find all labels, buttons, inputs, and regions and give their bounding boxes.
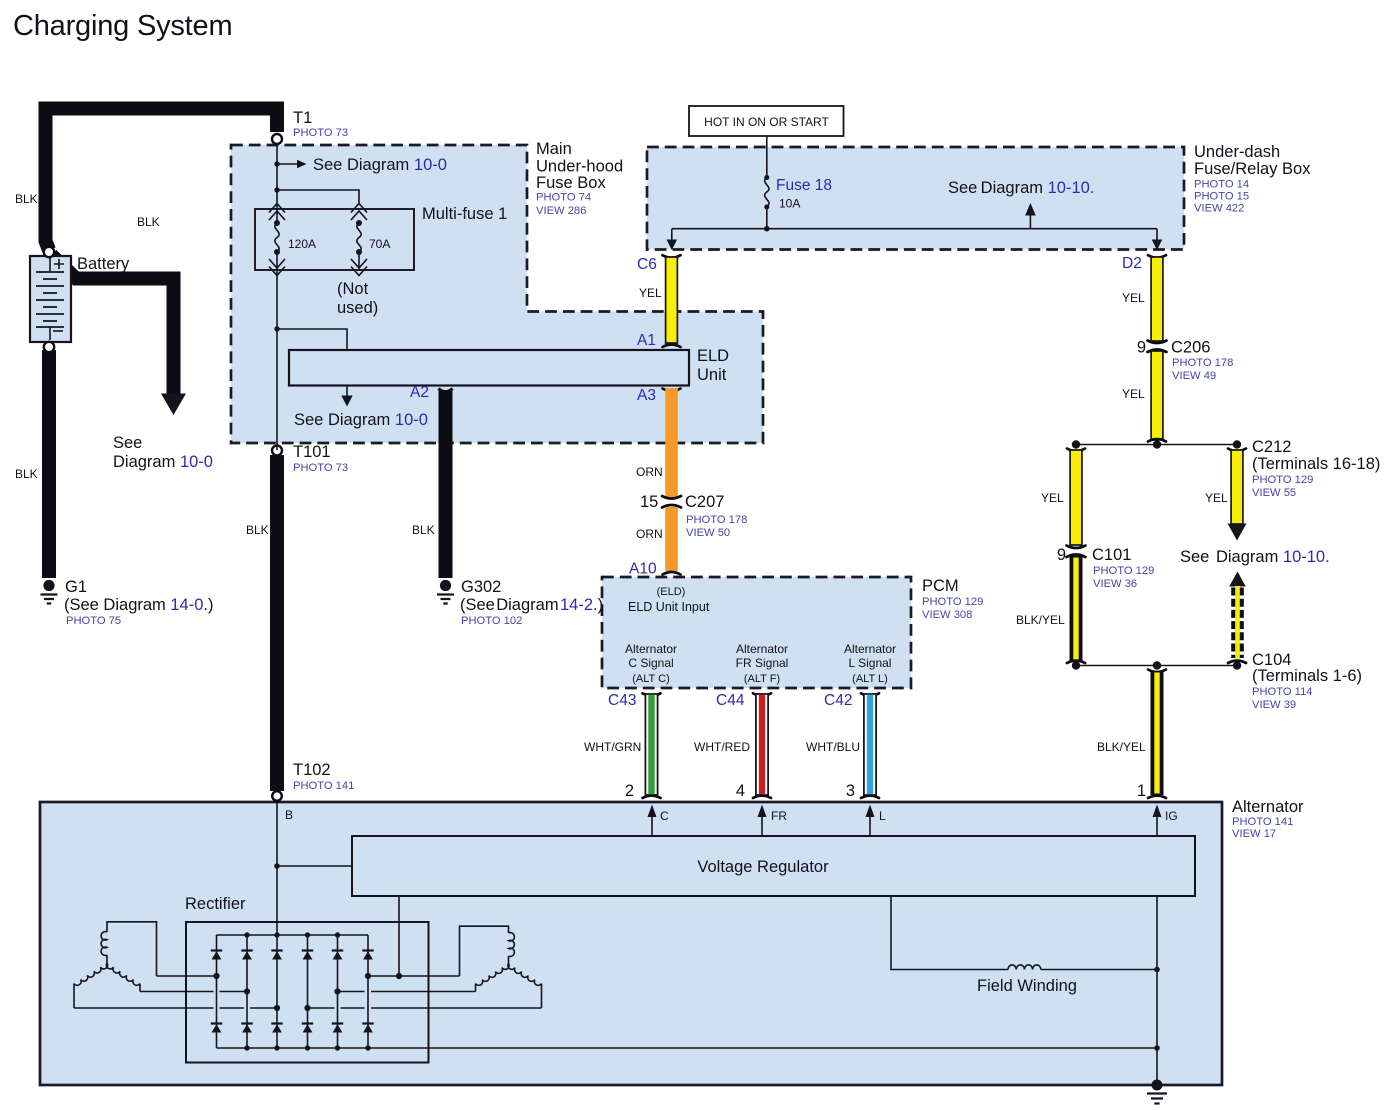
- node field winding junction: [1154, 967, 1160, 973]
- arrow up to see diagram 10-10: [1029, 215, 1031, 229]
- svg-text:PHOTO 114: PHOTO 114: [1252, 686, 1313, 698]
- svg-text:L: L: [879, 809, 886, 823]
- diode column 4: [307, 935, 309, 1048]
- svg-text:PHOTO 141: PHOTO 141: [1232, 816, 1293, 828]
- svg-text:T1: T1: [293, 109, 312, 127]
- battery: [30, 247, 71, 352]
- wire WHT/RED C44 to alternator pin 4: [753, 693, 771, 798]
- svg-text:3: 3: [846, 782, 855, 800]
- svg-text:PHOTO 129: PHOTO 129: [922, 596, 983, 608]
- battery positive branch thick wire to See Diagram 10-0 arrow: [52, 255, 174, 394]
- svg-text:Alternator: Alternator: [625, 642, 677, 656]
- ground G302: [437, 580, 454, 604]
- wire BLK/YEL to alternator pin 1: [1148, 670, 1166, 799]
- svg-text:15: 15: [640, 493, 658, 511]
- svg-text:VIEW 36: VIEW 36: [1093, 578, 1137, 590]
- connector C207: [662, 496, 681, 508]
- wire ORN A3 to C207: [663, 389, 681, 392]
- svg-text:Unit: Unit: [697, 366, 727, 384]
- wire YEL C6 to A1: [663, 255, 681, 258]
- wire WHT/GRN C43 to alternator pin 2: [643, 693, 661, 798]
- svg-text:Rectifier: Rectifier: [185, 895, 246, 913]
- svg-text:A10: A10: [629, 561, 657, 578]
- wire YEL arrow to C212 (see diagram 10-10): [1228, 449, 1247, 541]
- wire BLK/YEL C101 to lower bus: [1067, 556, 1085, 663]
- top bus nodes: [244, 932, 249, 937]
- svg-text:FR Signal: FR Signal: [736, 656, 789, 670]
- terminal T1: [272, 134, 282, 144]
- rectifier bottom bus to ground line: [217, 1047, 1158, 1049]
- svg-text:Under-dash: Under-dash: [1194, 143, 1280, 161]
- svg-text:(ALT F): (ALT F): [744, 673, 780, 685]
- diode D5u upper: [332, 951, 343, 960]
- svg-text:VIEW 55: VIEW 55: [1252, 487, 1296, 499]
- svg-text:C6: C6: [637, 256, 657, 273]
- svg-text:See Diagram 10-10.: See Diagram 10-10.: [948, 179, 1094, 197]
- svg-text:C Signal: C Signal: [628, 656, 673, 670]
- diode column 2: [246, 935, 248, 1048]
- phase wire right 1: [368, 975, 460, 977]
- svg-text:C43: C43: [608, 692, 636, 709]
- dashed arrow wire to C104: [1228, 572, 1246, 664]
- svg-text:A2: A2: [410, 384, 429, 401]
- svg-text:L Signal: L Signal: [849, 656, 892, 670]
- svg-text:PHOTO 141: PHOTO 141: [293, 780, 354, 792]
- svg-text:PHOTO 129: PHOTO 129: [1093, 565, 1154, 577]
- svg-text:ELD Unit Input: ELD Unit Input: [628, 600, 710, 614]
- phase wire right 3: [308, 1007, 542, 1009]
- svg-text:VIEW 39: VIEW 39: [1252, 699, 1296, 711]
- svg-text:(ALT C): (ALT C): [632, 673, 670, 685]
- diode column 6: [367, 935, 369, 1048]
- svg-text:A3: A3: [637, 387, 656, 404]
- svg-text:C101: C101: [1092, 546, 1131, 564]
- diode D1 upper: [211, 951, 222, 960]
- diode D2L lower: [241, 1024, 252, 1033]
- svg-text:YEL: YEL: [1122, 387, 1145, 401]
- node: branch to ELD see-diagram arrow: [274, 326, 279, 331]
- node: [1233, 661, 1241, 669]
- HOT IN ON OR START box: [689, 106, 844, 136]
- Alternator box: [40, 802, 1222, 1085]
- fuse 18 feed wire from HOT box: [766, 136, 768, 177]
- diode D3u upper: [271, 951, 282, 960]
- phase wire left 1: [157, 975, 217, 977]
- phase middle nodes: [213, 973, 219, 979]
- wire WHT/BLU C42 to alternator pin 3: [861, 693, 879, 798]
- left stator winding: [74, 922, 157, 1008]
- diode D4u upper: [302, 951, 313, 960]
- bottom bus nodes: [244, 1045, 249, 1050]
- svg-text:(ELD): (ELD): [657, 586, 686, 598]
- lower junction bus wire y=665.5: [1076, 665, 1237, 667]
- phase wire left 2: [140, 991, 247, 993]
- fuse 18: [764, 175, 769, 210]
- battery negative thick wire to G1: [42, 350, 56, 578]
- svg-text:G302: G302: [461, 578, 501, 596]
- svg-text:C212: C212: [1252, 438, 1291, 456]
- svg-text:Alternator: Alternator: [844, 642, 896, 656]
- node: [1153, 661, 1161, 669]
- diode D3L lower: [271, 1024, 282, 1033]
- svg-text:Alternator: Alternator: [1232, 798, 1304, 816]
- svg-text:WHT/BLU: WHT/BLU: [806, 740, 860, 754]
- svg-text:PHOTO 15: PHOTO 15: [1194, 191, 1249, 203]
- wire YEL junction to C101: [1067, 449, 1085, 546]
- svg-text:4: 4: [736, 782, 745, 800]
- Voltage Regulator box: [352, 836, 1195, 896]
- connector C206: [1148, 341, 1167, 353]
- svg-text:Main: Main: [536, 140, 572, 158]
- node: [1233, 440, 1241, 448]
- svg-text:(ALT L): (ALT L): [852, 673, 888, 685]
- svg-text:70A: 70A: [369, 237, 390, 251]
- wire ORN C207 to A10: [665, 507, 678, 571]
- svg-text:Fuse Box: Fuse Box: [536, 174, 606, 192]
- svg-text:Battery: Battery: [77, 255, 130, 273]
- svg-text:BLK: BLK: [412, 523, 435, 537]
- svg-text:VIEW 422: VIEW 422: [1194, 203, 1244, 215]
- svg-text:ORN: ORN: [636, 527, 663, 541]
- svg-text:BLK: BLK: [246, 523, 269, 537]
- svg-text:120A: 120A: [288, 237, 316, 251]
- node: [396, 973, 402, 979]
- svg-text:(Terminals 16-18): (Terminals 16-18): [1252, 455, 1380, 473]
- wire field winding to IG line: [1041, 969, 1157, 971]
- svg-text:See Diagram 10-10.: See Diagram 10-10.: [1180, 548, 1330, 566]
- terminal T102: [272, 791, 282, 801]
- svg-text:PHOTO 74: PHOTO 74: [536, 192, 591, 204]
- svg-text:PHOTO 178: PHOTO 178: [1172, 357, 1233, 369]
- svg-text:C206: C206: [1171, 339, 1210, 357]
- IG/ground line: [1156, 896, 1158, 1085]
- diode D5L lower: [332, 1024, 343, 1033]
- svg-text:YEL: YEL: [1122, 291, 1145, 305]
- diode column 5: [337, 935, 339, 1048]
- svg-text:PCM: PCM: [922, 577, 959, 595]
- node: [1072, 440, 1080, 448]
- arrow down to D2: [1156, 229, 1158, 240]
- svg-text:VIEW 50: VIEW 50: [686, 527, 730, 539]
- svg-text:WHT/RED: WHT/RED: [694, 740, 750, 754]
- pin FR arrow: [761, 816, 763, 836]
- svg-text:10A: 10A: [779, 197, 800, 211]
- svg-text:A1: A1: [637, 332, 656, 349]
- svg-text:See Diagram 10-0: See Diagram 10-0: [313, 156, 447, 174]
- thick black wire T101 to T102: [270, 455, 284, 791]
- svg-text:Multi-fuse 1: Multi-fuse 1: [422, 205, 507, 223]
- right stator winding: [460, 926, 542, 1008]
- svg-text:1: 1: [1137, 782, 1146, 800]
- svg-text:Alternator: Alternator: [736, 642, 788, 656]
- svg-text:BLK/YEL: BLK/YEL: [1016, 613, 1065, 627]
- svg-text:PHOTO 102: PHOTO 102: [461, 615, 522, 627]
- svg-text:B: B: [285, 808, 293, 822]
- svg-text:WHT/GRN: WHT/GRN: [584, 740, 641, 754]
- svg-text:BLK: BLK: [15, 467, 38, 481]
- svg-text:9: 9: [1057, 546, 1066, 564]
- bus wire inside under-dash box: [672, 228, 1157, 230]
- ELD Unit bar: [289, 350, 689, 386]
- svg-text:VIEW 286: VIEW 286: [536, 205, 586, 217]
- svg-text:C42: C42: [824, 692, 852, 709]
- svg-text:PHOTO 75: PHOTO 75: [66, 615, 121, 627]
- diode D6u upper: [362, 951, 373, 960]
- svg-text:(See Diagram 14-2.): (See Diagram 14-2.): [460, 596, 603, 614]
- diode column 1: [216, 935, 218, 1048]
- arrow see diagram 10-0 (top): [277, 163, 297, 165]
- svg-text:Fuse/Relay Box: Fuse/Relay Box: [1194, 160, 1311, 178]
- svg-text:HOT IN ON OR START: HOT IN ON OR START: [704, 115, 829, 129]
- svg-text:Field Winding: Field Winding: [977, 977, 1077, 995]
- svg-text:VIEW 49: VIEW 49: [1172, 370, 1216, 382]
- svg-text:T101: T101: [293, 443, 331, 461]
- wire branch over ELD unit bar: [277, 329, 347, 349]
- svg-text:9: 9: [1137, 339, 1146, 357]
- junction bus wire y=444.5: [1076, 444, 1237, 446]
- Main Under-hood Fuse Box (dashed L-shaped box): [231, 145, 763, 443]
- Multi-fuse 1 box: [255, 209, 414, 270]
- svg-text:ORN: ORN: [636, 465, 663, 479]
- svg-text:Voltage Regulator: Voltage Regulator: [697, 858, 829, 876]
- node: [1153, 440, 1161, 448]
- svg-text:ELD: ELD: [697, 347, 729, 365]
- svg-text:used): used): [337, 299, 378, 317]
- svg-text:C: C: [660, 809, 669, 823]
- connector C101: [1067, 546, 1086, 558]
- svg-text:FR: FR: [771, 809, 787, 823]
- svg-text:BLK: BLK: [15, 192, 38, 206]
- wire VR to field winding (left stub): [891, 896, 1008, 970]
- field winding coil: [1008, 965, 1041, 970]
- battery positive thick wire to T1: [46, 109, 278, 251]
- Rectifier box: [186, 922, 429, 1063]
- svg-text:C207: C207: [685, 493, 724, 511]
- pin C arrow: [651, 816, 653, 836]
- svg-text:(Not: (Not: [337, 280, 369, 298]
- wire B junction to voltage regulator: [277, 865, 352, 867]
- node rectifier return junction: [1154, 1045, 1160, 1051]
- svg-text:YEL: YEL: [1041, 491, 1064, 505]
- diode D2u upper: [241, 951, 252, 960]
- svg-text:See Diagram 10-0: See Diagram 10-0: [294, 411, 428, 429]
- svg-text:VIEW 308: VIEW 308: [922, 609, 972, 621]
- svg-text:PHOTO 14: PHOTO 14: [1194, 179, 1249, 191]
- PCM box (dashed): [602, 577, 911, 688]
- pin L arrow: [869, 816, 871, 836]
- svg-text:T102: T102: [293, 761, 331, 779]
- node: branch to see-diagram arrow: [274, 161, 279, 166]
- diode D4L lower: [302, 1024, 313, 1033]
- fuse 120A: [269, 204, 285, 276]
- wire branch to 70A fuse: [277, 190, 359, 203]
- svg-text:VIEW 17: VIEW 17: [1232, 828, 1276, 840]
- phase wire right 2: [338, 991, 476, 993]
- svg-text:PHOTO 129: PHOTO 129: [1252, 474, 1313, 486]
- terminal T101: [272, 446, 282, 456]
- diode column 3 (B column): [276, 935, 278, 1048]
- pin B wire inside alternator: [276, 802, 278, 935]
- svg-text:2: 2: [625, 782, 634, 800]
- svg-text:(See Diagram 14-0.): (See Diagram 14-0.): [64, 596, 214, 614]
- svg-text:PHOTO 73: PHOTO 73: [293, 127, 348, 139]
- phase wire left 3: [74, 1007, 277, 1009]
- svg-text:IG: IG: [1165, 809, 1178, 823]
- svg-text:See: See: [113, 434, 142, 452]
- svg-text:Under-hood: Under-hood: [536, 158, 623, 176]
- svg-text:YEL: YEL: [1205, 491, 1228, 505]
- ground G1: [41, 580, 58, 604]
- svg-text:PHOTO 73: PHOTO 73: [293, 462, 348, 474]
- svg-text:(Terminals 1-6): (Terminals 1-6): [1252, 667, 1362, 685]
- svg-text:Charging System: Charging System: [13, 10, 232, 42]
- wire fuse to bus: [766, 207, 768, 229]
- rectifier top bus: [217, 934, 369, 936]
- voltage regulator sense wire: [398, 896, 400, 976]
- svg-text:PHOTO 178: PHOTO 178: [686, 514, 747, 526]
- node: branch to second fuse: [274, 187, 279, 192]
- diode D1L lower: [211, 1024, 222, 1033]
- thick black wire from A2 to G302: [439, 389, 453, 392]
- svg-text:Diagram 10-0: Diagram 10-0: [113, 453, 213, 471]
- Under-dash Fuse/Relay Box (dashed box): [647, 147, 1184, 250]
- ground (alternator case): [1147, 1080, 1167, 1104]
- pin IG arrow: [1156, 816, 1158, 836]
- wire YEL C206 to junction: [1151, 351, 1163, 439]
- svg-text:YEL: YEL: [639, 286, 662, 300]
- arrow down to C6: [671, 229, 673, 240]
- svg-text:Fuse 18: Fuse 18: [776, 177, 832, 194]
- svg-text:D2: D2: [1122, 255, 1142, 272]
- diode D6L lower: [362, 1024, 373, 1033]
- wire YEL D2 to C206: [1148, 255, 1166, 258]
- svg-text:C44: C44: [716, 692, 745, 709]
- fuse 70A (not used): [351, 204, 367, 276]
- node: [1072, 661, 1080, 669]
- svg-text:BLK/YEL: BLK/YEL: [1097, 740, 1146, 754]
- wire from T1 down through fuse box: [276, 143, 278, 222]
- svg-text:G1: G1: [65, 578, 87, 596]
- node B junction: [274, 863, 280, 869]
- svg-text:BLK: BLK: [137, 215, 160, 229]
- arrow see diagram 10-0 (below ELD bar): [346, 387, 348, 397]
